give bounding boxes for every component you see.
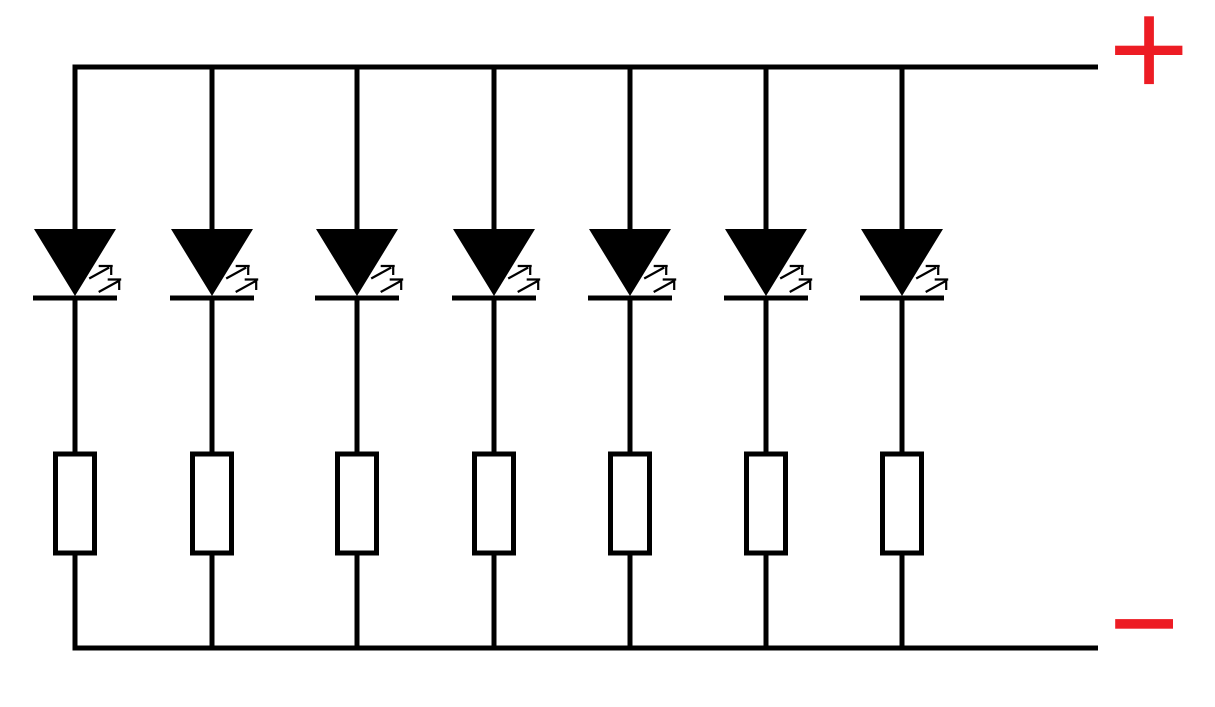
wire: D1 cathode to R1 — [73, 299, 78, 455]
resistor R2 — [193, 454, 232, 553]
wire: D5 cathode to R5 — [628, 299, 633, 455]
wire: R7 to bottom rail — [900, 552, 905, 651]
wire: R2 to bottom rail — [210, 552, 215, 651]
resistor R7 — [883, 454, 922, 553]
positive supply terminal (+) — [1115, 16, 1182, 84]
wire: R6 to bottom rail — [764, 552, 769, 651]
wire: R1 to bottom rail — [73, 552, 78, 651]
LED D5 — [588, 229, 676, 301]
wire: D7 cathode to R7 — [900, 299, 905, 455]
wire: negative bottom rail — [73, 646, 1099, 651]
resistor R4 — [475, 454, 514, 553]
LED D3 — [315, 229, 403, 301]
wire: top rail to D1 anode — [73, 65, 78, 233]
wire: D4 cathode to R4 — [492, 299, 497, 455]
wire: D6 cathode to R6 — [764, 299, 769, 455]
wire: D3 cathode to R3 — [355, 299, 360, 455]
wire: R4 to bottom rail — [492, 552, 497, 651]
wire: R5 to bottom rail — [628, 552, 633, 651]
wire: top rail to D2 anode — [210, 65, 215, 233]
wire: top rail to D7 anode — [900, 65, 905, 233]
LED D2 — [170, 229, 258, 301]
wire: positive top rail — [73, 65, 1099, 70]
LED D4 — [452, 229, 540, 301]
wire: top rail to D6 anode — [764, 65, 769, 233]
resistor R3 — [338, 454, 377, 553]
resistor R1 — [56, 454, 95, 553]
wire: top rail to D3 anode — [355, 65, 360, 233]
LED D7 — [860, 229, 948, 301]
resistor R6 — [747, 454, 786, 553]
negative supply terminal (-) — [1115, 619, 1173, 629]
LED D6 — [724, 229, 812, 301]
wire: top rail to D5 anode — [628, 65, 633, 233]
wire: D2 cathode to R2 — [210, 299, 215, 455]
resistor R5 — [611, 454, 650, 553]
LED D1 — [33, 229, 121, 301]
wire: R3 to bottom rail — [355, 552, 360, 651]
wire: top rail to D4 anode — [492, 65, 497, 233]
